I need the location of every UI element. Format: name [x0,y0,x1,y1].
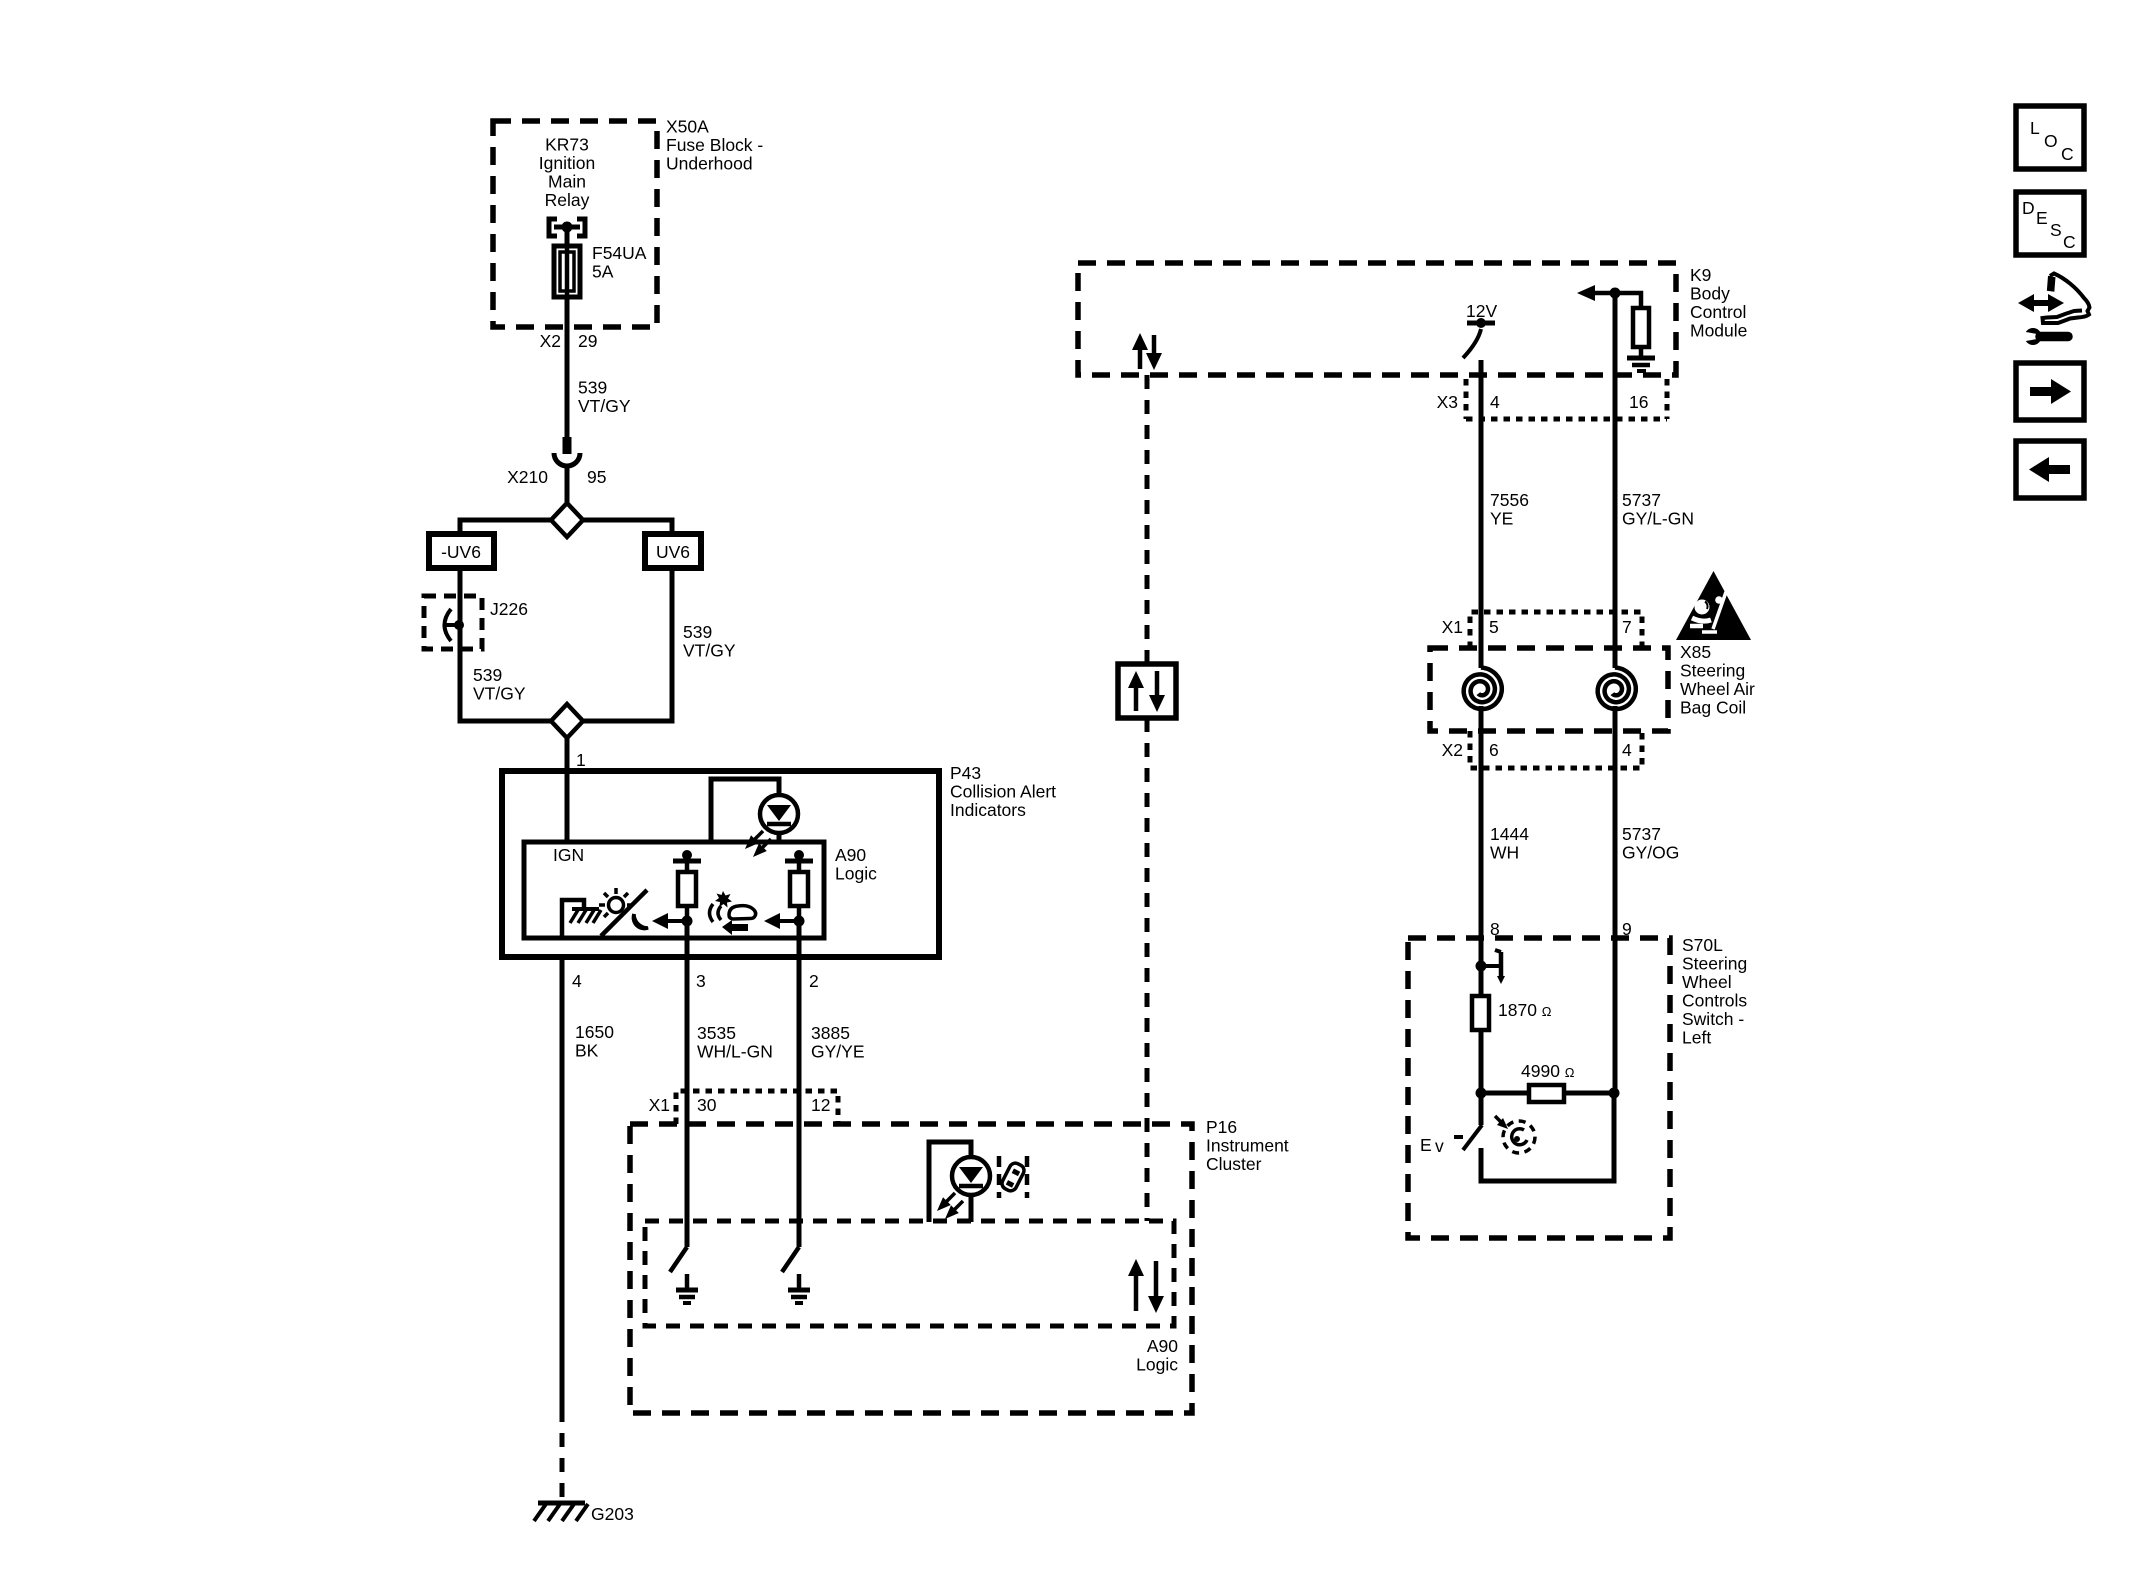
logic block A90 P16 dashed [645,1221,1174,1326]
arrow R1 [666,919,687,923]
wire fuse to X210 [565,297,570,438]
fuse block X50A dashed box [493,121,657,327]
wire splice to -UV6 [460,520,551,535]
svg-text:X2: X2 [540,331,561,351]
svg-text:Main: Main [548,172,586,192]
wire 3885 GY/YE [797,957,802,1124]
svg-text:GY/OG: GY/OG [1622,843,1679,863]
svg-text:D: D [2022,198,2035,218]
svg-text:5: 5 [1489,617,1499,637]
svg-text:Wheel Air: Wheel Air [1680,679,1755,699]
svg-text:X1: X1 [1442,617,1463,637]
svg-text:-UV6: -UV6 [441,542,481,562]
relay KR73 label [539,135,595,211]
svg-text:YE: YE [1490,509,1513,529]
svg-text:7: 7 [1622,617,1632,637]
svg-text:v: v [1435,1136,1444,1156]
svg-text:Body: Body [1690,284,1730,304]
ground wire dashed to G203 [560,1408,565,1502]
coil left spiral [1464,668,1502,710]
serial data link box [1118,664,1176,718]
LED emission arrows [752,831,771,850]
wire 3535 WH/L-GN [685,957,690,1124]
connector X3 dotted [1464,379,1469,419]
svg-text:J226: J226 [490,599,528,619]
svg-text:30: 30 [697,1095,717,1115]
svg-text:Cluster: Cluster [1206,1154,1262,1174]
svg-text:BK: BK [575,1041,599,1061]
svg-text:2: 2 [809,971,819,991]
svg-text:VT/GY: VT/GY [473,684,526,704]
svg-text:Bag Coil: Bag Coil [1680,698,1746,718]
svg-text:12V: 12V [1466,301,1497,321]
svg-text:GY/L-GN: GY/L-GN [1622,509,1694,529]
svg-text:4: 4 [1622,740,1632,760]
net UV6 box [645,534,701,568]
nav icon diagnostics [2030,300,2052,306]
svg-text:Collision Alert: Collision Alert [950,782,1056,802]
svg-text:X2: X2 [1442,740,1463,760]
svg-text:P43: P43 [950,763,981,783]
svg-text:Wheel: Wheel [1682,972,1732,992]
svg-text:K9: K9 [1690,265,1711,285]
svg-text:X210: X210 [507,467,548,487]
svg-text:E: E [1420,1135,1432,1155]
svg-text:Instrument: Instrument [1206,1136,1289,1156]
horn contact stub [1481,964,1499,968]
wire 16 down [1613,293,1618,420]
svg-text:Relay: Relay [545,190,590,210]
svg-text:Steering: Steering [1680,661,1745,681]
svg-text:Fuse Block -: Fuse Block - [666,135,763,155]
svg-text:Control: Control [1690,302,1746,322]
serial data arrows K9 [1138,347,1143,369]
svg-text:7556: 7556 [1490,490,1529,510]
wire R1 to pin 3 [685,921,690,957]
wire 8 inside S70L [1479,938,1484,996]
wire X210 to splice [565,466,570,504]
svg-text:X3: X3 [1437,392,1458,412]
svg-text:6: 6 [1489,740,1499,760]
switch to ground pin 12 [797,1124,802,1247]
svg-text:P16: P16 [1206,1117,1237,1137]
inline connector X210 95 [563,437,572,454]
svg-text:12: 12 [811,1095,830,1115]
svg-text:Logic: Logic [1136,1355,1178,1375]
airbag warning triangle [1676,571,1751,640]
splice diamond S2 [551,704,583,738]
switch fixed contact and loop [1481,1093,1614,1181]
LED indicator P16 [929,1142,971,1222]
relay KR73 contact [549,219,557,236]
resistor R1 P43 [673,859,701,864]
svg-text:WH: WH [1490,843,1519,863]
signal ground left P16 [676,1288,698,1293]
svg-text:A90: A90 [835,845,866,865]
coil X85 dashed box [1430,648,1668,731]
svg-text:539: 539 [683,622,712,642]
connector X2 steering dotted [1470,731,1642,768]
svg-text:Logic: Logic [835,864,877,884]
wire splice to P43 pin 1 [565,738,570,771]
signal ground K9 [1627,356,1655,361]
svg-text:O: O [2044,131,2058,151]
cruise control icon [1503,1121,1535,1153]
svg-text:5A: 5A [592,262,614,282]
svg-text:UV6: UV6 [656,542,690,562]
wire splice to UV6 [583,520,672,535]
wire UV6 down [583,568,672,721]
svg-text:C: C [2063,232,2076,252]
serial data dashed wire [1145,375,1150,664]
nav icon DESC box [2016,192,2084,255]
svg-text:1650: 1650 [575,1022,614,1042]
serial data dashed wire lower [1145,718,1150,1221]
wire R2 to pin 2 [797,921,802,957]
junction node R1 [682,916,693,927]
svg-text:IGN: IGN [553,845,584,865]
svg-text:G203: G203 [591,1504,634,1524]
net -UV6 box [429,534,494,568]
svg-text:Left: Left [1682,1028,1711,1048]
wire -UV6 down through J226 [460,568,551,721]
LED P16 emission arrows [944,1193,963,1212]
nav icon LOC box [2016,106,2084,169]
connector X1 P16 dotted [676,1091,838,1124]
wire relay to fuse [565,227,570,247]
svg-text:95: 95 [587,467,606,487]
svg-text:X1: X1 [649,1095,670,1115]
junction node R2 [794,916,805,927]
svg-text:Module: Module [1690,321,1747,341]
svg-text:L: L [2030,118,2040,138]
svg-text:Switch -: Switch - [1682,1009,1744,1029]
svg-text:Underhood: Underhood [666,154,753,174]
svg-text:S70L: S70L [1682,935,1723,955]
wire 5737 GY/L-GN [1613,419,1618,668]
svg-text:VT/GY: VT/GY [683,641,736,661]
svg-text:C: C [2061,144,2074,164]
svg-text:Indicators: Indicators [950,800,1026,820]
wire 5737 GY/OG [1613,706,1618,938]
splice diamond S1 [551,503,583,537]
svg-text:Ignition: Ignition [539,153,595,173]
svg-text:16: 16 [1629,392,1648,412]
wire 9 inside S70L [1613,938,1618,1093]
resistor R2 P43 [785,859,813,864]
connector X1 steering dotted [1470,612,1642,648]
arrow R2 [778,919,799,923]
svg-text:F54UA: F54UA [592,243,647,263]
svg-text:539: 539 [473,665,502,685]
Ev switch blade [1463,1125,1482,1150]
svg-text:4: 4 [1490,392,1500,412]
svg-text:E: E [2036,208,2048,228]
collision alert icon [710,904,722,922]
svg-text:KR73: KR73 [545,135,589,155]
signal ground right P16 [788,1288,810,1293]
svg-text:VT/GY: VT/GY [578,396,631,416]
svg-text:X50A: X50A [666,117,709,137]
svg-text:1: 1 [576,750,586,770]
coil right spiral [1598,668,1636,710]
wire 7556 YE [1479,419,1484,668]
wire 1444 WH [1479,706,1484,938]
nav icon back arrow box [2016,441,2084,498]
pullup resistor K9 [1610,288,1621,299]
module P16 dashed box [630,1124,1192,1413]
connector J226 dashed box [424,596,482,649]
module P43 box [502,771,939,957]
wire pin1 inside P43 [565,771,570,842]
svg-text:3: 3 [696,971,706,991]
svg-text:S: S [2050,220,2062,240]
resistor 1870 [1472,996,1489,1030]
svg-text:1444: 1444 [1490,824,1529,844]
svg-text:3885: 3885 [811,1023,850,1043]
svg-text:Controls: Controls [1682,991,1747,1011]
wire 1650 BK [560,957,565,1408]
svg-text:X85: X85 [1680,642,1711,662]
day night icon [599,888,648,929]
svg-text:5737: 5737 [1622,490,1661,510]
svg-text:5737: 5737 [1622,824,1661,844]
nav icon next arrow box [2016,363,2084,420]
svg-text:4: 4 [572,971,582,991]
LED indicator P43 [711,779,779,842]
module K9 dashed box [1078,263,1676,375]
serial data arrows P16 [1134,1272,1139,1311]
ground G203 [538,1501,585,1506]
svg-text:A90: A90 [1147,1336,1178,1356]
svg-text:3535: 3535 [697,1023,736,1043]
svg-text:WH/L-GN: WH/L-GN [697,1042,773,1062]
wire to lower junction [1479,1030,1484,1125]
lane departure car icon [999,1156,1027,1198]
svg-text:539: 539 [578,378,607,398]
junction node [1476,961,1487,972]
switch to ground pin 30 [685,1124,690,1247]
IGN hook wire [562,900,584,938]
svg-text:GY/YE: GY/YE [811,1042,865,1062]
connector J226 symbol [445,609,452,641]
fuse F54UA [554,246,580,297]
svg-text:29: 29 [578,331,597,351]
chassis ground P43 [572,907,599,911]
svg-text:Steering: Steering [1682,954,1747,974]
logic block A90 box [524,842,824,938]
switch S70L dashed box [1408,938,1670,1238]
